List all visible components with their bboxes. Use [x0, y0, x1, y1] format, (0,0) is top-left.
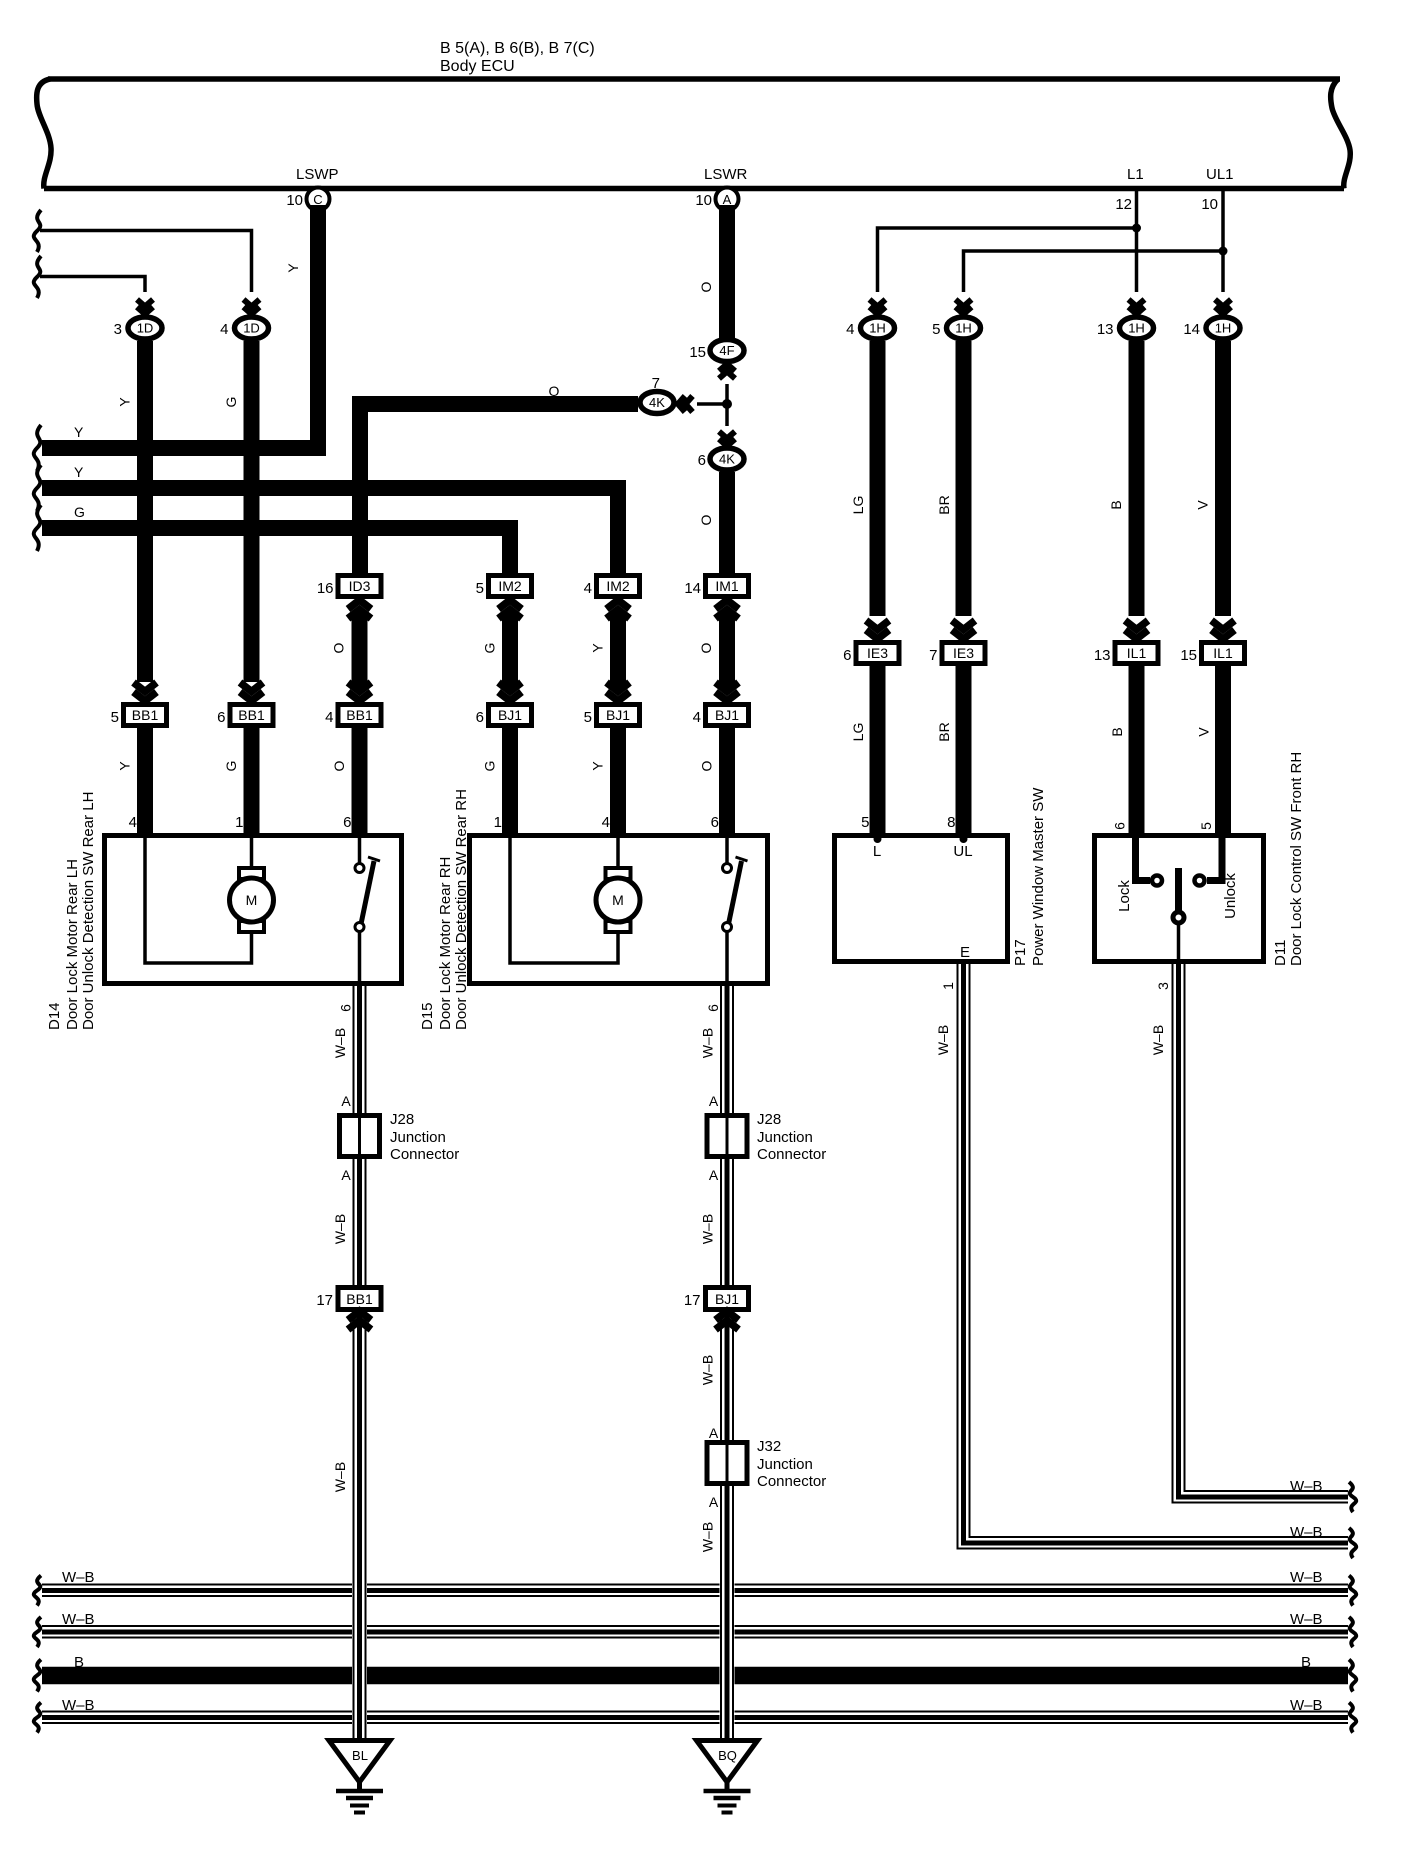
arrow out of middle-row connector at x=727 [716, 600, 739, 619]
D15 internal wire from pin 1 to motor bottom [510, 838, 618, 963]
svg-text:10: 10 [286, 192, 303, 209]
svg-text:IE3: IE3 [867, 645, 888, 661]
svg-text:BB1: BB1 [346, 707, 373, 723]
arrow out of middle-row connector at x=618 [607, 600, 630, 619]
svg-text:5: 5 [932, 321, 940, 338]
component box D15 [470, 836, 768, 984]
junction connector J28 (left) box [340, 1116, 380, 1157]
svg-text:W–B: W–B [935, 1025, 951, 1055]
D14 switch wire from pin 6 [358, 838, 362, 863]
svg-text:Connector: Connector [390, 1146, 459, 1163]
D14 switch wire to box bottom [358, 931, 362, 983]
svg-text:E: E [960, 944, 970, 961]
arrow into connector 1D pin 4 [244, 300, 260, 315]
svg-text:L1: L1 [1127, 166, 1144, 183]
Body ECU box bottom edge [44, 186, 1344, 192]
svg-text:M: M [246, 892, 258, 908]
G feeder wire from torn end to connector IM2 pin 5 [42, 528, 510, 573]
branch wire from L1 to connector 1H pin 4 [878, 228, 1137, 292]
wire Y from LSWP circle C down and left to torn end [42, 205, 318, 448]
wire LG from 1H pin 4 to connector IE3 pin 6 [870, 341, 886, 616]
svg-text:Door Lock Control SW Front RH: Door Lock Control SW Front RH [1288, 752, 1305, 966]
P17 terminal bump pin 5 [874, 835, 882, 843]
svg-text:IM2: IM2 [606, 578, 630, 594]
svg-text:BJ1: BJ1 [715, 1291, 739, 1307]
svg-text:6: 6 [698, 452, 706, 469]
torn left end of second W-B bus [34, 1617, 41, 1647]
wire O from lower connector into component at x=727 [719, 728, 735, 833]
torn right end of P17 W-B wire [1349, 1528, 1356, 1558]
D14 door unlock detection switch [355, 857, 380, 932]
svg-text:4: 4 [584, 580, 592, 597]
arrow out of BB1 pin 17 [348, 1311, 371, 1330]
link wire at x=618 between connector rows [610, 612, 626, 690]
svg-text:8: 8 [947, 814, 955, 831]
svg-text:L: L [873, 843, 881, 860]
svg-text:Power Window Master SW: Power Window Master SW [1030, 787, 1047, 966]
wire Y from 1D pin 3 to connector BB1 pin 5 [137, 341, 153, 682]
svg-text:J28: J28 [390, 1111, 414, 1128]
wire Y from lower connector into component at x=145 [137, 728, 153, 833]
svg-text:Y: Y [590, 761, 606, 771]
connector oval 4F pin 15 [710, 340, 744, 362]
D15 internal wire from pin 4 to motor top [616, 838, 620, 869]
D11 internal wire from pin 6 to Lock contact [1136, 838, 1151, 881]
svg-text:17: 17 [316, 1292, 333, 1309]
component box P17 Power Window Master SW [835, 836, 1008, 962]
wire G from lower connector into component at x=510 [502, 728, 518, 833]
bus wire W-B third [42, 1712, 1348, 1724]
svg-text:Connector: Connector [757, 1473, 826, 1490]
connector BB1 pin 5 [124, 705, 167, 726]
svg-text:1: 1 [494, 814, 502, 831]
junction connector J32 box [707, 1443, 747, 1484]
svg-text:1H: 1H [1128, 321, 1145, 336]
svg-text:5: 5 [476, 580, 484, 597]
svg-text:LSWP: LSWP [296, 166, 339, 183]
svg-text:W–B: W–B [1150, 1025, 1166, 1055]
svg-text:G: G [74, 504, 85, 520]
connector BJ1 pin 17 box [706, 1288, 749, 1310]
arrow out of middle-row connector at x=359.5 [348, 600, 371, 619]
svg-text:Junction: Junction [390, 1129, 446, 1146]
Body ECU box right torn edge [1331, 79, 1351, 189]
svg-text:W–B: W–B [62, 1697, 95, 1714]
svg-text:W–B: W–B [1290, 1478, 1323, 1495]
svg-text:W–B: W–B [700, 1355, 716, 1385]
wire from junction dot left to connector 4K pin 7 [697, 402, 730, 406]
svg-text:Door Unlock Detection SW Rear: Door Unlock Detection SW Rear RH [453, 789, 470, 1030]
arrow into connector 1H pin 4 [870, 300, 886, 315]
svg-text:C: C [313, 192, 322, 207]
wire core through J28 (left) [358, 1118, 361, 1154]
connector oval 1H pin 14 [1206, 317, 1240, 339]
svg-text:1: 1 [235, 814, 243, 831]
svg-text:6: 6 [338, 1004, 354, 1012]
svg-text:6: 6 [1112, 822, 1128, 830]
svg-text:14: 14 [684, 580, 701, 597]
svg-text:4: 4 [693, 709, 701, 726]
motor M of D14 [230, 868, 274, 932]
svg-text:O: O [698, 514, 714, 525]
svg-text:Y: Y [285, 263, 301, 273]
svg-text:15: 15 [689, 344, 706, 361]
svg-text:10: 10 [695, 192, 712, 209]
torn right end of B bus [1349, 1660, 1356, 1692]
arrow into connector BB1 pin 6 [240, 683, 263, 702]
connector BB1 pin 4 [338, 705, 381, 726]
wire O from 4K pin 7 to connector ID3 pin 16 [360, 404, 638, 573]
svg-text:A: A [709, 1093, 719, 1109]
wire O from 4K pin 6 to connector IM1 pin 14 [719, 472, 735, 573]
Y feeder wire from torn end to connector IM2 pin 4 [42, 488, 618, 573]
wire core through J28 (right) [726, 1118, 729, 1154]
svg-text:O: O [698, 642, 714, 653]
arrow into lower-row connector at x=618 [607, 683, 630, 702]
svg-text:B: B [1301, 1654, 1311, 1671]
svg-text:4: 4 [602, 814, 610, 831]
svg-text:Door Lock Motor Rear LH: Door Lock Motor Rear LH [64, 859, 81, 1030]
motor M of D15 [596, 868, 640, 932]
svg-text:4K: 4K [719, 452, 735, 467]
svg-text:4: 4 [129, 814, 137, 831]
wire from junction dot down to connector 4K pin 6 [725, 404, 729, 426]
wire core through J32 [726, 1445, 729, 1481]
link wire at x=359.5 between connector rows [352, 612, 368, 690]
svg-text:6: 6 [843, 647, 851, 664]
svg-text:Body ECU: Body ECU [440, 58, 515, 75]
svg-text:BJ1: BJ1 [606, 707, 630, 723]
svg-text:5: 5 [584, 709, 592, 726]
arrow into lower-row connector at x=359.5 [348, 683, 371, 702]
svg-text:Y: Y [117, 761, 133, 771]
connector oval 1D pin 4 [235, 317, 269, 339]
svg-text:3: 3 [1155, 982, 1171, 990]
D14 internal wire from pin 1 to motor top [250, 838, 254, 869]
svg-text:W–B: W–B [700, 1028, 716, 1058]
svg-text:B 5(A), B 6(B), B 7(C): B 5(A), B 6(B), B 7(C) [440, 40, 595, 57]
torn right end of D11 W-B wire [1349, 1482, 1356, 1512]
svg-text:Door Lock Motor Rear RH: Door Lock Motor Rear RH [437, 857, 454, 1030]
svg-text:W–B: W–B [700, 1522, 716, 1552]
arrow into connector BB1 pin 5 [134, 683, 157, 702]
svg-text:1H: 1H [869, 321, 886, 336]
svg-text:O: O [698, 281, 714, 292]
svg-text:BQ: BQ [718, 1748, 737, 1763]
svg-text:15: 15 [1180, 647, 1197, 664]
wire from L1 down with branch [1135, 191, 1139, 292]
svg-text:6: 6 [343, 814, 351, 831]
torn left end of B bus [34, 1660, 41, 1692]
svg-text:6: 6 [705, 1004, 721, 1012]
wire BR from IE3 into P17 at x=963.5 [956, 666, 972, 833]
svg-text:P17: P17 [1012, 939, 1029, 966]
junction connector J28 (right) box [707, 1116, 747, 1157]
svg-text:G: G [482, 761, 498, 772]
svg-text:10: 10 [1201, 196, 1218, 213]
svg-text:B: B [1108, 500, 1124, 509]
svg-text:13: 13 [1097, 321, 1114, 338]
svg-text:W–B: W–B [332, 1028, 348, 1058]
svg-text:Junction: Junction [757, 1456, 813, 1473]
svg-text:1D: 1D [243, 321, 260, 336]
arrow into lower-row connector at x=510 [499, 683, 522, 702]
wire B from 1H pin 13 to connector IL1 pin 13 [1129, 341, 1145, 616]
arrow into connector IL1 pin 13 [1125, 621, 1148, 640]
wire BR from 1H pin 5 to connector IE3 pin 7 [956, 341, 972, 616]
svg-text:IL1: IL1 [1213, 645, 1233, 661]
connector BJ1 pin 5 [597, 705, 640, 726]
svg-text:Unlock: Unlock [1222, 873, 1239, 919]
wire G from lower connector into component at x=251.5 [244, 728, 260, 833]
connector IM1 pin 14 [706, 576, 749, 597]
svg-text:O: O [331, 642, 347, 653]
ground symbol BL [329, 1741, 390, 1813]
svg-text:J28: J28 [757, 1111, 781, 1128]
svg-text:W–B: W–B [700, 1214, 716, 1244]
D15 switch wire from pin 6 [725, 838, 729, 863]
svg-text:1H: 1H [955, 321, 972, 336]
svg-text:4: 4 [846, 321, 854, 338]
arrow into connector IE3 pin 6 [866, 621, 889, 640]
svg-text:O: O [331, 760, 347, 771]
D11 internal wire from pin 5 to Unlock contact [1207, 838, 1222, 881]
connector IM2 pin 4 [597, 576, 640, 597]
connector BB1 pin 17 box [338, 1288, 381, 1310]
svg-text:6: 6 [476, 709, 484, 726]
connector oval 1H pin 5 [947, 317, 981, 339]
connector circle A at LSWR pin 10 [716, 188, 739, 211]
wire W-B D14 ground chain [354, 986, 366, 1738]
svg-text:4: 4 [325, 709, 333, 726]
svg-text:14: 14 [1183, 321, 1200, 338]
torn end of LSWP Y wire [34, 425, 41, 471]
arrow into connector 1H pin 14 [1215, 300, 1231, 315]
svg-text:UL: UL [953, 843, 972, 860]
svg-text:IM2: IM2 [498, 578, 522, 594]
svg-text:Y: Y [74, 424, 84, 440]
arrow into connector IL1 pin 15 [1212, 621, 1235, 640]
Body ECU box top edge [48, 76, 1340, 82]
D11 switch pivot [1173, 912, 1184, 923]
svg-text:G: G [223, 761, 239, 772]
wire V from 1H pin 14 to connector IL1 pin 15 [1215, 341, 1231, 616]
wire W-B D15 ground chain [721, 986, 733, 1738]
connector IL1 pin 15 [1202, 643, 1245, 664]
connector oval 1H pin 4 [861, 317, 895, 339]
wire W-B from D11 pin 3 to torn right end [1173, 964, 1349, 1503]
svg-text:Y: Y [117, 397, 133, 407]
connector IL1 pin 13 [1115, 643, 1158, 664]
D15 switch wire to box bottom [725, 931, 729, 983]
arrow into connector IE3 pin 7 [952, 621, 975, 640]
svg-text:BB1: BB1 [346, 1291, 373, 1307]
torn end of wire to connector 1D pin 4 [34, 210, 41, 252]
svg-text:W–B: W–B [332, 1462, 348, 1492]
svg-text:G: G [223, 397, 239, 408]
svg-text:LSWR: LSWR [704, 166, 748, 183]
svg-text:17: 17 [684, 1292, 701, 1309]
svg-text:W–B: W–B [1290, 1569, 1323, 1586]
junction dot on UL1 branch [1219, 247, 1228, 256]
svg-text:W–B: W–B [1290, 1524, 1323, 1541]
svg-text:IL1: IL1 [1127, 645, 1147, 661]
connector BB1 pin 6 [230, 705, 273, 726]
link wire at x=727 between connector rows [719, 612, 735, 690]
branch wire from UL1 to connector 1H pin 5 [964, 251, 1224, 292]
svg-text:16: 16 [317, 580, 334, 597]
svg-text:BR: BR [936, 722, 952, 741]
connector oval 1D pin 3 [128, 317, 162, 339]
link wire at x=510 between connector rows [502, 612, 518, 690]
svg-text:1: 1 [940, 982, 956, 990]
component box D14 [105, 836, 402, 984]
D14 internal wire from pin 4 to motor bottom [145, 838, 252, 963]
bus wire B (thick) [42, 1667, 1348, 1685]
svg-text:5: 5 [111, 709, 119, 726]
svg-text:A: A [723, 192, 732, 207]
torn end of Y feeder wire [34, 465, 41, 511]
svg-text:A: A [709, 1494, 719, 1510]
svg-text:Y: Y [74, 464, 84, 480]
svg-text:D14: D14 [46, 1002, 63, 1030]
torn left end of third W-B bus [34, 1703, 41, 1733]
svg-text:4F: 4F [719, 343, 734, 358]
arrow out of BJ1 pin 17 [716, 1311, 739, 1330]
wire W-B from P17 pin E to torn right end [958, 964, 1349, 1549]
svg-text:A: A [709, 1425, 719, 1441]
torn end of G feeder wire [34, 505, 41, 551]
connector IM2 pin 5 [489, 576, 532, 597]
svg-text:BR: BR [936, 495, 952, 514]
svg-text:3: 3 [114, 321, 122, 338]
svg-text:13: 13 [1094, 647, 1111, 664]
svg-text:Lock: Lock [1116, 880, 1133, 912]
wire Y from lower connector into component at x=618 [610, 728, 626, 833]
svg-text:G: G [482, 643, 498, 654]
svg-text:A: A [341, 1093, 351, 1109]
D11 switch lever [1175, 868, 1182, 911]
white underlay for D15 ground wire [720, 1560, 735, 1740]
svg-text:BJ1: BJ1 [715, 707, 739, 723]
ground symbol BQ [697, 1741, 758, 1813]
torn left end of first W-B bus [34, 1576, 41, 1606]
arrow into connector 4K pin 7 [678, 396, 693, 412]
svg-text:BB1: BB1 [132, 707, 159, 723]
svg-text:Junction: Junction [757, 1129, 813, 1146]
arrow into connector 4K pin 6 [719, 432, 735, 447]
connector circle C at LSWP pin 10 [307, 188, 330, 211]
svg-text:O: O [699, 760, 715, 771]
wire O from LSWR circle A to connector 4F [719, 205, 735, 338]
svg-text:BB1: BB1 [238, 707, 265, 723]
torn right end of first W-B bus [1349, 1576, 1356, 1606]
D15 door unlock detection switch [723, 857, 748, 932]
svg-text:5: 5 [1198, 822, 1214, 830]
svg-text:LG: LG [850, 723, 866, 742]
svg-text:LG: LG [850, 496, 866, 515]
svg-text:12: 12 [1115, 196, 1132, 213]
junction dot on L1 branch [1132, 224, 1141, 233]
wire from UL1 down with branch [1221, 191, 1225, 292]
svg-text:M: M [612, 892, 624, 908]
torn end of wire to connector 1D pin 3 [34, 256, 41, 298]
wire O from lower connector into component at x=359.5 [352, 728, 368, 833]
D11 Unlock contact [1195, 876, 1205, 886]
connector oval 1H pin 13 [1120, 317, 1154, 339]
bus wire W-B first [42, 1585, 1348, 1597]
wire from torn end to connector 1D pin 4 [40, 231, 252, 293]
svg-text:6: 6 [217, 709, 225, 726]
svg-text:Door Unlock Detection SW Rear: Door Unlock Detection SW Rear LH [80, 792, 97, 1030]
svg-text:W–B: W–B [62, 1611, 95, 1628]
svg-text:4K: 4K [649, 395, 665, 410]
svg-text:D11: D11 [1272, 940, 1289, 966]
wire B from IL1 into D11 at x=1136.5 [1129, 666, 1145, 833]
svg-text:7: 7 [652, 375, 660, 392]
D11 Lock contact [1152, 876, 1162, 886]
svg-text:ID3: ID3 [349, 578, 371, 594]
svg-text:D15: D15 [419, 1002, 436, 1030]
svg-text:5: 5 [861, 814, 869, 831]
svg-text:W–B: W–B [62, 1569, 95, 1586]
svg-text:A: A [709, 1167, 719, 1183]
arrow out of middle-row connector at x=510 [499, 600, 522, 619]
svg-text:4: 4 [220, 321, 228, 338]
wire G from 1D pin 4 to connector BB1 pin 6 [244, 341, 260, 682]
svg-text:A: A [341, 1167, 351, 1183]
wire from junction dot up to arrow of 4F [725, 384, 729, 404]
white underlay for D14 ground wire [352, 1560, 367, 1740]
svg-text:UL1: UL1 [1206, 166, 1234, 183]
svg-text:BJ1: BJ1 [498, 707, 522, 723]
wire V from IL1 into D11 at x=1223 [1215, 666, 1231, 833]
connector BJ1 pin 6 [489, 705, 532, 726]
svg-text:J32: J32 [757, 1438, 781, 1455]
svg-text:Y: Y [590, 643, 606, 653]
torn right end of third W-B bus [1349, 1703, 1356, 1733]
svg-text:IE3: IE3 [953, 645, 974, 661]
Body ECU box left torn edge [37, 79, 51, 189]
wire from torn end to connector 1D pin 3 [40, 277, 145, 293]
svg-text:IM1: IM1 [715, 578, 739, 594]
component box D11 Door Lock Control SW Front RH [1095, 836, 1264, 962]
connector IE3 pin 7 [942, 643, 985, 664]
svg-text:Connector: Connector [757, 1146, 826, 1163]
connector IE3 pin 6 [856, 643, 899, 664]
arrow into connector 4F [719, 364, 735, 379]
svg-text:B: B [74, 1654, 84, 1671]
junction dot at LSWR branch [722, 399, 732, 409]
svg-text:1H: 1H [1215, 321, 1232, 336]
arrow into connector 1H pin 13 [1129, 300, 1145, 315]
svg-text:W–B: W–B [332, 1214, 348, 1244]
wire LG from IE3 into P17 at x=877.5 [870, 666, 886, 833]
connector oval 4K pin 6 [710, 448, 744, 470]
svg-text:W–B: W–B [1290, 1697, 1323, 1714]
connector ID3 pin 16 [338, 576, 381, 597]
P17 terminal bump pin 8 [960, 835, 968, 843]
arrow into connector 1H pin 5 [956, 300, 972, 315]
connector oval 4K pin 7 [640, 392, 674, 414]
D11 wire from pivot to box bottom [1177, 923, 1181, 983]
svg-text:V: V [1196, 727, 1212, 737]
bus wire W-B second [42, 1626, 1348, 1638]
arrow into lower-row connector at x=727 [716, 683, 739, 702]
arrow into connector 1D pin 3 [137, 300, 153, 315]
svg-text:6: 6 [711, 814, 719, 831]
torn right end of second W-B bus [1349, 1617, 1356, 1647]
